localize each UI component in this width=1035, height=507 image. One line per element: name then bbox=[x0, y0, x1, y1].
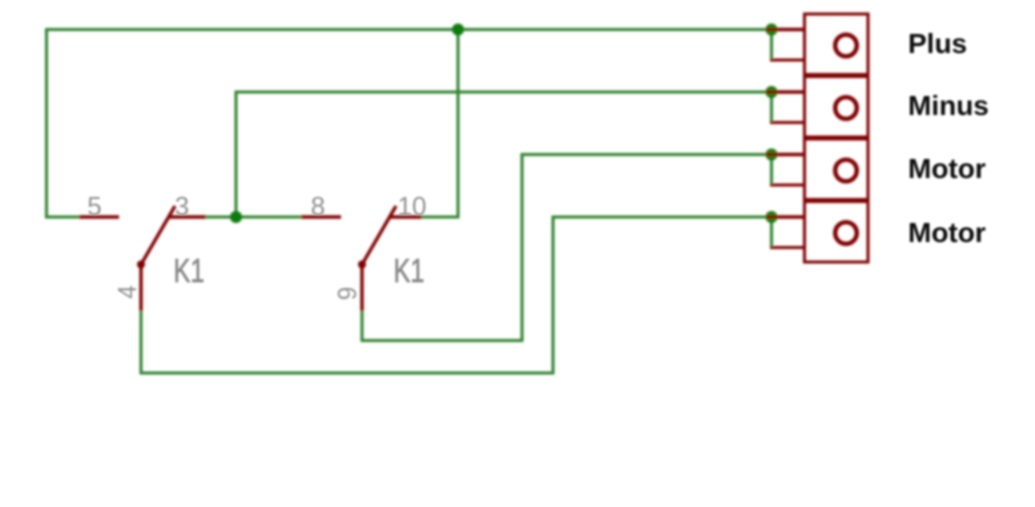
terminal Plus screw circle bbox=[835, 35, 857, 57]
wire net pin4 to Motor terminal 4 bbox=[141, 217, 772, 373]
svg-text:10: 10 bbox=[398, 191, 427, 221]
terminal Minus pin lead bbox=[766, 90, 805, 93]
svg-text:5: 5 bbox=[87, 191, 101, 221]
terminal Minus box bbox=[805, 77, 869, 138]
terminal Minus screw circle bbox=[835, 97, 857, 119]
junction dot at terminal Minus bbox=[766, 86, 778, 98]
relay contact K1 pin 8 lead bbox=[301, 215, 341, 218]
svg-text:Plus: Plus bbox=[908, 28, 967, 59]
wire branch from top run down to pin10 bbox=[422, 31, 458, 217]
wire terminal 1 bracket drop bbox=[770, 30, 773, 61]
svg-text:K1: K1 bbox=[394, 252, 425, 289]
wire net N$2: riser from pin3 tee up and right run to Minus bbox=[236, 92, 772, 216]
relay contact K1 pivot dot pin4 bbox=[137, 261, 145, 269]
terminal Plus pin lead bbox=[766, 28, 805, 31]
wire segment pin3 to pin8 with tee bbox=[206, 216, 301, 219]
relay contact K1 lever pin3-4 bbox=[141, 206, 175, 265]
junction dot at pin3 tee bbox=[230, 211, 242, 223]
terminal Motor3 screw circle bbox=[835, 160, 857, 182]
svg-text:4: 4 bbox=[112, 285, 142, 299]
junction dot on top run bbox=[452, 24, 464, 36]
terminal Plus bracket bottom bbox=[770, 59, 805, 62]
relay contact K1 pin 5 lead bbox=[79, 215, 119, 218]
junction dot at terminal Motor 4 bbox=[766, 211, 778, 223]
relay contact K1 pin 3 lead bbox=[169, 215, 207, 218]
relay contact K1 pivot dot pin9 bbox=[358, 261, 366, 269]
terminal Motor4 box bbox=[805, 202, 869, 263]
terminal Motor3 bracket bottom bbox=[770, 184, 805, 187]
junction dot at terminal Plus bbox=[766, 24, 778, 36]
svg-text:K1: K1 bbox=[174, 252, 205, 289]
terminal Plus box bbox=[805, 14, 869, 75]
junction dot at terminal Motor 3 bbox=[766, 149, 778, 161]
relay contact K1 pin 4 lead bbox=[139, 265, 142, 312]
terminal Minus bracket bottom bbox=[770, 121, 805, 124]
svg-text:Motor: Motor bbox=[908, 153, 986, 184]
relay contact K1 pin 9 lead bbox=[360, 265, 363, 312]
svg-text:Motor: Motor bbox=[908, 217, 986, 248]
relay contact K1 lever pin10-9 bbox=[362, 206, 396, 265]
wire net N$1 top: pin5 stub, left riser, top run to Plus bbox=[47, 30, 772, 218]
svg-text:8: 8 bbox=[311, 191, 325, 221]
wire terminal 2 bracket drop bbox=[770, 92, 773, 123]
terminal Motor4 bracket bottom bbox=[770, 246, 805, 249]
terminal Motor4 screw circle bbox=[835, 222, 857, 244]
wire terminal 3 bracket drop bbox=[770, 155, 773, 186]
terminal Motor3 box bbox=[805, 139, 869, 200]
svg-text:3: 3 bbox=[175, 191, 189, 221]
svg-text:9: 9 bbox=[332, 287, 362, 301]
wire terminal 4 bracket drop bbox=[770, 217, 773, 248]
relay contact K1 pin 10 lead bbox=[390, 215, 423, 218]
terminal Motor3 pin lead bbox=[766, 153, 805, 156]
terminal Motor4 pin lead bbox=[766, 215, 805, 218]
wire net pin9 to Motor terminal 3 bbox=[362, 155, 772, 341]
svg-text:Minus: Minus bbox=[908, 90, 989, 121]
